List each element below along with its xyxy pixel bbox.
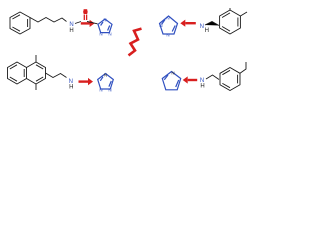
molecule 2 bond N-chain <box>205 22 219 26</box>
molecule 3 tetrazole ring (blue) <box>98 74 114 90</box>
svg-text:N: N <box>166 16 169 21</box>
molecule 4 benzene ring <box>220 62 246 91</box>
svg-text:N: N <box>171 71 174 76</box>
svg-text:N: N <box>103 18 106 23</box>
svg-text:N: N <box>99 32 102 37</box>
svg-text:N: N <box>108 32 111 37</box>
molecule 1 carbonyl C=O (red) <box>84 9 88 14</box>
molecule 3 bond to ring <box>75 80 80 82</box>
svg-text:H: H <box>200 84 204 90</box>
red cleavage zigzag (center) <box>129 29 142 56</box>
molecule 1 red arrow <box>81 20 95 27</box>
molecule 4 red arrow (pointing left) <box>183 76 198 83</box>
molecule 2 (top-right) tetrazole ring (blue) <box>160 16 178 34</box>
molecule 1 bond C-ring <box>87 22 98 24</box>
svg-text:H: H <box>69 28 73 34</box>
svg-text:N: N <box>104 73 107 78</box>
molecule 2 red arrow (pointing left) <box>180 20 196 27</box>
molecule 4 (bottom-right) tetrazole ring (blue) <box>162 72 180 90</box>
svg-text:N: N <box>200 24 204 30</box>
molecule 3 red arrow <box>79 78 94 85</box>
molecule 3 (bottom-left) fused bicyclic ring <box>8 55 46 90</box>
svg-text:N: N <box>166 33 169 38</box>
svg-text:H: H <box>205 28 209 34</box>
svg-text:H: H <box>69 84 73 90</box>
molecule 4 chain <box>206 75 219 80</box>
svg-text:N: N <box>108 88 111 93</box>
molecule 1 (top-left) benzene ring <box>10 12 30 34</box>
svg-text:N: N <box>99 88 102 93</box>
molecule 3 chain <box>46 73 67 78</box>
molecule 1 tetrazole ring (blue) <box>98 19 112 33</box>
molecule 1 bond N-C <box>75 22 81 24</box>
molecule 2 benzene ring <box>220 8 247 34</box>
molecule 1 chain <box>30 18 67 23</box>
svg-text:N: N <box>159 23 162 28</box>
